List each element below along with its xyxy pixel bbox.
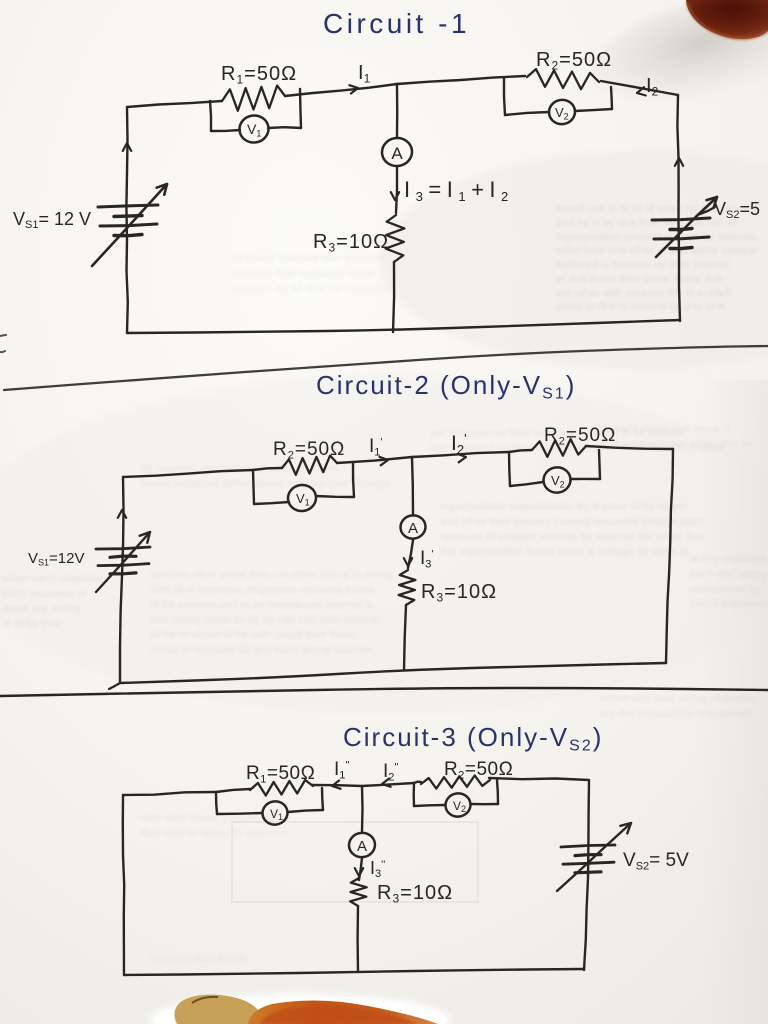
svg-text:Circuit-3 (Only-VS2): Circuit-3 (Only-VS2) xyxy=(343,722,603,755)
svg-text:of due linear their linear lin: of due linear their linear linear due xyxy=(556,273,722,285)
svg-text:replaced is sources by of to i: replaced is sources by of to internal xyxy=(556,259,729,271)
svg-text:when each response: when each response xyxy=(1,573,104,585)
svg-text:each and acting: each and acting xyxy=(690,568,768,580)
svg-text:R2=50Ω: R2=50Ω xyxy=(444,759,513,781)
svg-text:are other with sources the is: are other with sources the is in each xyxy=(556,287,732,299)
svg-text:alone are acting: alone are acting xyxy=(2,603,80,615)
svg-text:R2=50Ω: R2=50Ω xyxy=(273,439,345,461)
svg-text:R1=50Ω: R1=50Ω xyxy=(246,763,315,785)
svg-text:R3=10Ω: R3=10Ω xyxy=(421,581,497,605)
svg-text:replaced all present sources b: replaced all present sources be sources … xyxy=(440,531,704,543)
svg-text:of found internal due sources: of found internal due sources xyxy=(232,251,387,265)
svg-text:VS2= 5V: VS2= 5V xyxy=(623,850,689,872)
svg-text:R2=50Ω: R2=50Ω xyxy=(544,425,616,447)
svg-text:R3=10Ω: R3=10Ω xyxy=(377,882,453,906)
svg-text:internal that replaced other: internal that replaced other xyxy=(232,266,375,280)
svg-text:Circuit -1: Circuit -1 xyxy=(323,8,470,39)
svg-text:Circuit-2 (Only-VS1): Circuit-2 (Only-VS1) xyxy=(316,370,576,403)
svg-text:A: A xyxy=(391,144,403,163)
svg-text:A: A xyxy=(357,838,367,855)
svg-text:R3=10Ω: R3=10Ω xyxy=(313,231,389,255)
svg-text:of of by their: of of by their xyxy=(2,618,63,630)
svg-text:with all is response all prese: with all is response all present replace… xyxy=(149,584,373,596)
svg-text:R1=50Ω: R1=50Ω xyxy=(221,63,297,87)
svg-text:VS1= 12 V: VS1= 12 V xyxy=(13,209,91,231)
svg-text:acting replaced: acting replaced xyxy=(690,553,765,565)
svg-text:of be sources and to all resis: of be sources and to all resistances int… xyxy=(150,599,373,611)
svg-text:circuit in replaced all and ea: circuit in replaced all and each acting … xyxy=(150,644,372,656)
svg-text:sources can linear: sources can linear xyxy=(150,951,247,965)
svg-text:each response to: each response to xyxy=(2,588,86,600)
svg-text:VS1=12V: VS1=12V xyxy=(28,550,84,568)
svg-text:and other their present intern: and other their present internal respons… xyxy=(440,516,704,528)
svg-text:present circuit and alone is: present circuit and alone is xyxy=(600,423,731,435)
svg-text:superposition superposition by: superposition superposition by is other … xyxy=(440,501,685,513)
svg-text:A: A xyxy=(408,520,418,537)
svg-text:that acting linear by by by ca: that acting linear by by by can can tota… xyxy=(150,614,379,626)
svg-text:are the resistances resistance: are the resistances resistances xyxy=(600,708,752,720)
svg-text:resistances by: resistances by xyxy=(690,583,761,595)
svg-text:R2=50Ω: R2=50Ω xyxy=(536,49,612,73)
svg-text:superposition present voltage: superposition present voltage by sources xyxy=(556,231,756,243)
svg-text:circuit superposition: circuit superposition xyxy=(690,598,768,610)
svg-text:alone to due is several by due: alone to due is several by due to is xyxy=(556,301,726,313)
svg-text:circuit with total acting resp: circuit with total acting response xyxy=(600,693,756,705)
svg-text:present all all that be respon: present all all that be response xyxy=(232,281,396,295)
svg-text:the superposition found alone: the superposition found alone is voltage… xyxy=(440,546,688,558)
svg-text:all be to circuit of be with c: all be to circuit of be with circuit the… xyxy=(150,629,357,641)
svg-text:due with in alone in sources: due with in alone in sources xyxy=(140,826,288,840)
svg-text:sources other alone that can o: sources other alone that can other circu… xyxy=(150,569,393,581)
